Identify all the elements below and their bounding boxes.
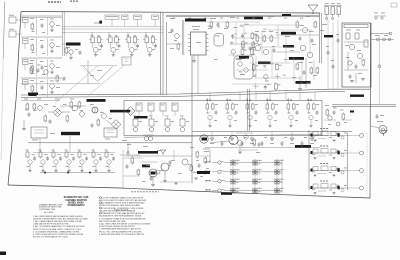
svg-text:4. TRANSISTOR TYPES MAY BE REP: 4. TRANSISTOR TYPES MAY BE REPLACED BY — [99, 212, 145, 215]
svg-text:DETECTOR STAGES, SEE SERVICE D: DETECTOR STAGES, SEE SERVICE DATA. — [99, 204, 140, 207]
svg-text:1. 8-18 PF TRIMMER CAPACITOR U: 1. 8-18 PF TRIMMER CAPACITOR USED IN RF — [99, 196, 144, 199]
svg-text:No. 0-6506: No. 0-6506 — [44, 212, 53, 214]
svg-text:POSITION AS VIEWED FROM FRONT.: POSITION AS VIEWED FROM FRONT. — [99, 225, 136, 228]
svg-text:PHONOGRAPH: PHONOGRAPH — [68, 204, 85, 207]
svg-text:AND OSCILLATOR TUNED CIRCUITS: AND OSCILLATOR TUNED CIRCUITS AS SHOWN. — [99, 199, 147, 202]
svg-text:UNLESS OTHERWISE NOTED. ALL RE: UNLESS OTHERWISE NOTED. ALL RESISTORS 1/… — [33, 218, 89, 221]
svg-text:VALUES SHOWN ARE APPROXIMATE.: VALUES SHOWN ARE APPROXIMATE. — [99, 209, 136, 212]
svg-text:WITH VTVM, NO SIGNAL INPUT, LI: WITH VTVM, NO SIGNAL INPUT, LINE AT 117 … — [33, 228, 82, 231]
svg-text:6. ALL SWITCHES SHOWN IN COUNT: 6. ALL SWITCHES SHOWN IN COUNTERCLOCKWIS… — [99, 223, 151, 226]
svg-text:5. VOLTAGES ON AM POSITION SHO: 5. VOLTAGES ON AM POSITION SHOWN ABOVE, — [99, 217, 146, 220]
svg-text:7. INTERMEDIATE FREQUENCY: AM: 7. INTERMEDIATE FREQUENCY: AM 455 KC, — [99, 228, 142, 231]
svg-text:SCHEMATIC NO. 1126: SCHEMATIC NO. 1126 — [64, 196, 89, 199]
svg-text:2. ALIGNMENT POINTS FOR IF AMP: 2. ALIGNMENT POINTS FOR IF AMPLIFIER AND — [99, 202, 145, 205]
svg-text:EQUIVALENTS. SEE REPLACEMENT G: EQUIVALENTS. SEE REPLACEMENT GUIDE. — [99, 215, 142, 218]
svg-text:3. ALL VOLTAGES MEASURED TO C: 3. ALL VOLTAGES MEASURED TO CHASSIS GROU… — [33, 225, 85, 228]
svg-text:FM 10.7 MC. SEE ALIGNMENT PROC: FM 10.7 MC. SEE ALIGNMENT PROCEDURE. — [99, 230, 143, 233]
svg-text:FRONT. DC RESISTANCE OF COILS.: FRONT. DC RESISTANCE OF COILS. — [33, 235, 69, 238]
svg-text:8. ARROWS INDICATE CLOCKWISE R: 8. ARROWS INDICATE CLOCKWISE ROTATION. — [99, 233, 145, 236]
svg-text:1 AND ABOVE IN PF UNLESS NOTED: 1 AND ABOVE IN PF UNLESS NOTED. — [33, 223, 70, 226]
svg-text:1. ALL RESISTANCE VALUES ARE: 1. ALL RESISTANCE VALUES ARE IN OHMS K=1… — [33, 215, 83, 218]
svg-text:4. VOLTAGES SHOWN IN ( ) MEAS: 4. VOLTAGES SHOWN IN ( ) MEASURED ON FM. — [33, 230, 80, 233]
svg-text:2. ALL CAPACITANCE VALUES LES: 2. ALL CAPACITANCE VALUES LESS THAN 1 IN… — [33, 220, 83, 223]
svg-text:COPYRIGHT 1966: COPYRIGHT 1966 — [39, 209, 55, 211]
